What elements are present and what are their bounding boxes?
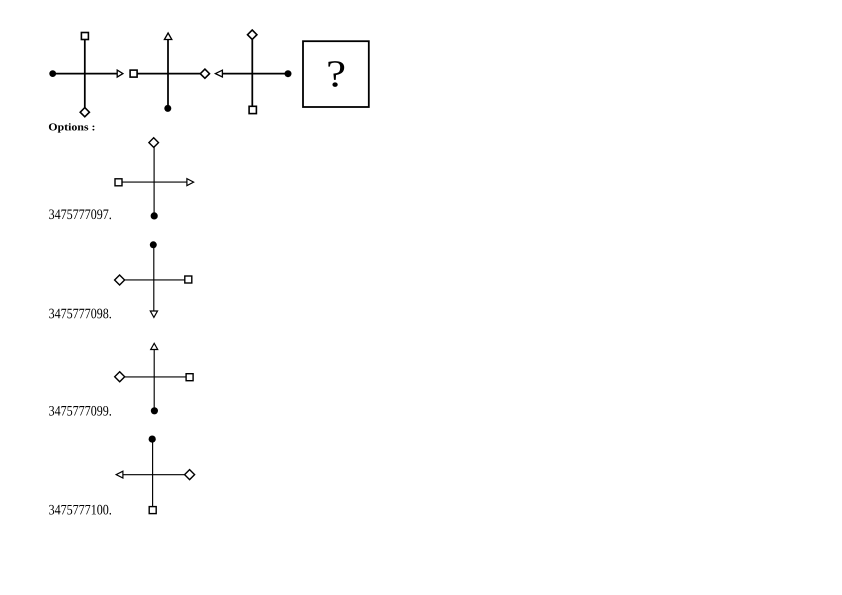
option label A: [49, 209, 111, 219]
wire horizontal F3: [217, 73, 288, 75]
dot top B: [150, 241, 157, 248]
Options heading: [49, 123, 95, 133]
dot top D: [149, 436, 156, 443]
arrow left F3: [215, 70, 222, 77]
dot bottom A: [151, 212, 158, 219]
dot bottom F2: [164, 105, 171, 112]
arrow right A: [187, 179, 194, 186]
option label C: [49, 406, 111, 416]
arrow top C: [151, 343, 158, 349]
dot left F1: [49, 70, 56, 77]
option figure D: [116, 436, 194, 514]
wire vertical C: [153, 346, 155, 411]
diamond left B: [115, 275, 125, 285]
arrow left D: [116, 471, 123, 478]
wire vertical A: [153, 143, 155, 216]
wire horizontal F2: [134, 73, 205, 75]
square right B: [185, 276, 192, 283]
option figure C: [115, 343, 193, 414]
option label B: [49, 309, 111, 319]
question figure 2: [130, 33, 209, 112]
wire horizontal D: [117, 474, 190, 476]
diamond bottom F1: [80, 108, 89, 117]
square bottom F3: [249, 106, 256, 113]
wire horizontal C: [120, 376, 190, 378]
dot bottom C: [151, 407, 158, 414]
wire horizontal A: [119, 181, 192, 183]
arrow bottom B: [150, 311, 157, 317]
option figure A: [115, 138, 194, 220]
arrow top F2: [164, 33, 171, 40]
diamond left C: [115, 372, 125, 382]
wire vertical D: [152, 439, 154, 510]
question mark glyph: [328, 61, 344, 87]
square bottom D: [149, 507, 156, 514]
diamond top F3: [248, 30, 257, 39]
square left F2: [130, 70, 137, 77]
square top F1: [81, 33, 88, 40]
arrow right F1: [117, 70, 123, 77]
option label D: [49, 505, 111, 515]
option figure B: [115, 241, 192, 317]
wire horizontal F1: [53, 73, 121, 75]
wire vertical F3: [251, 35, 253, 110]
square right C: [186, 374, 193, 381]
square left A: [115, 179, 122, 186]
wire vertical F2: [167, 36, 169, 108]
wire vertical B: [153, 245, 155, 315]
wire vertical F1: [84, 36, 86, 112]
dot right F3: [285, 70, 292, 77]
question mark box: [303, 41, 369, 107]
question figure 1: [49, 33, 123, 117]
diamond right F2: [200, 69, 209, 78]
diamond top A: [149, 138, 159, 148]
diamond right D: [185, 470, 195, 480]
wire horizontal B: [120, 279, 189, 281]
question figure 3: [215, 30, 291, 114]
